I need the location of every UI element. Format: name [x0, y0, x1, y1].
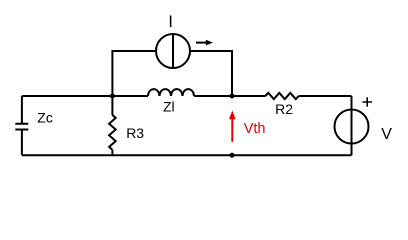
- wire current source left lead: [112, 51, 156, 96]
- wire current source right lead: [190, 51, 232, 96]
- node junction dot right: [230, 94, 235, 99]
- current source I bar: [172, 34, 174, 68]
- wire left branch lower: [21, 130, 23, 156]
- plus sign of V source: [362, 97, 372, 107]
- Vth arrow head: [229, 111, 236, 120]
- svg-text:Zc: Zc: [37, 110, 53, 126]
- svg-text:R3: R3: [126, 125, 144, 141]
- Vth arrow shaft: [231, 118, 233, 142]
- wire V source bottom lead: [351, 144, 353, 156]
- wire left branch upper: [21, 96, 23, 124]
- svg-text:V: V: [381, 126, 392, 143]
- svg-text:Zl: Zl: [163, 99, 175, 115]
- wire middle rail left segment: [22, 95, 148, 97]
- resistor R2: [265, 93, 299, 99]
- voltage source V bar: [351, 110, 353, 144]
- node junction dot bottom: [230, 153, 235, 158]
- svg-text:R2: R2: [275, 101, 293, 117]
- svg-text:Vth: Vth: [244, 121, 266, 137]
- capacitor Zc: [15, 124, 28, 130]
- node junction dot left: [110, 94, 115, 99]
- inductor Zl: [148, 89, 194, 96]
- resistor R3: [109, 115, 116, 150]
- wire R3 bottom lead: [111, 150, 113, 155]
- svg-text:I: I: [168, 12, 173, 31]
- wire middle rail center segment: [194, 95, 265, 97]
- wire V source top lead: [351, 96, 353, 110]
- voltage source V circle: [335, 110, 369, 144]
- current direction arrow shaft: [196, 42, 206, 44]
- wire bottom rail: [22, 154, 352, 156]
- wire R3 top lead: [111, 96, 113, 115]
- current source I circle: [156, 34, 190, 68]
- wire middle rail right segment: [299, 95, 352, 97]
- current direction arrow head: [206, 40, 213, 46]
